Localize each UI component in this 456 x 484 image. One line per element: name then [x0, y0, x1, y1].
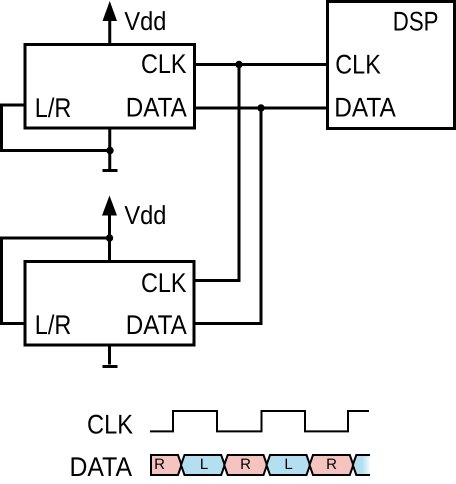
- ground symbol 2: [103, 365, 118, 368]
- wire L/R (U1) tie-low loop: [2, 105, 109, 151]
- svg-text:L/R: L/R: [35, 310, 72, 340]
- data segment R1: [151, 455, 182, 475]
- ground symbol 1: [103, 169, 118, 172]
- wire U1 ground stub: [108, 128, 111, 169]
- svg-text:CLK: CLK: [87, 410, 133, 440]
- svg-text:CLK: CLK: [335, 50, 381, 80]
- DSP box U3: [328, 2, 455, 129]
- junction CLK node: [235, 61, 242, 68]
- svg-text:Vdd: Vdd: [124, 200, 166, 230]
- wire DATA branch down to U2: [195, 108, 261, 324]
- power Vdd symbol 1 (arrow): [103, 1, 118, 44]
- CLK waveform trace: [150, 411, 369, 431]
- svg-text:DATA: DATA: [126, 310, 187, 340]
- svg-text:DATA: DATA: [70, 452, 133, 482]
- wire CLK net (U1 to DSP): [196, 63, 327, 66]
- junction U1 ground node: [106, 147, 113, 154]
- svg-text:L: L: [200, 456, 208, 473]
- data segment R3: [310, 455, 354, 475]
- wire DATA net (U1 to DSP): [196, 107, 327, 110]
- svg-text:DATA: DATA: [126, 93, 187, 123]
- junction DATA node: [257, 104, 264, 111]
- junction U2 Vdd node: [106, 234, 113, 241]
- svg-text:L/R: L/R: [35, 93, 72, 123]
- data segment L2: [267, 455, 311, 475]
- power Vdd symbol 2 (arrow): [102, 196, 117, 262]
- wire L/R (U2) tie-high loop to Vdd: [2, 238, 109, 324]
- svg-text:Vdd: Vdd: [124, 6, 166, 36]
- ADC box U1 (top codec): [25, 45, 195, 129]
- svg-text:L: L: [284, 456, 292, 473]
- data segment L3 (truncated): [353, 455, 370, 475]
- svg-text:DSP: DSP: [393, 7, 439, 37]
- data segment R2: [224, 455, 267, 475]
- svg-text:R: R: [240, 456, 251, 473]
- wire U2 ground stub: [108, 345, 111, 365]
- wire CLK branch down to U2: [195, 65, 239, 281]
- DATA bus band: [151, 455, 370, 475]
- svg-text:R: R: [326, 456, 337, 473]
- data segment L1: [181, 455, 225, 475]
- svg-text:CLK: CLK: [141, 49, 187, 79]
- svg-text:R: R: [154, 456, 165, 473]
- svg-text:DATA: DATA: [334, 92, 396, 122]
- svg-text:CLK: CLK: [141, 268, 187, 298]
- ADC box U2 (bottom codec): [25, 262, 194, 346]
